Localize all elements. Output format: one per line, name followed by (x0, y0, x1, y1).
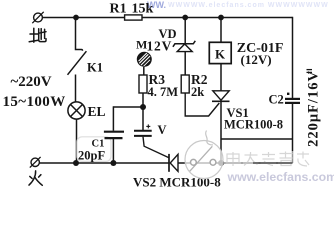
touch plate M (137, 52, 151, 75)
node junction R3/C1/V (140, 104, 146, 110)
wire link y107 (113, 106, 143, 108)
quote marks above vertical label (307, 70, 313, 73)
wire R3 bottom (142, 93, 144, 107)
wire top right (142, 17, 293, 19)
wire EL to bottom (76, 119, 78, 163)
watermark rounded box near C1 (77, 137, 111, 162)
zener diode VD (173, 18, 195, 76)
svg-text:www.elecfans.com: www.elecfans.com (227, 170, 334, 184)
svg-text:20pF: 20pF (78, 148, 105, 162)
node junction K branch (218, 15, 224, 21)
polarity mark capacitor V (146, 124, 150, 128)
label 火 (live) (29, 171, 42, 185)
svg-text:R1: R1 (110, 2, 127, 17)
wire bottom left (39, 162, 169, 164)
svg-text:V: V (158, 123, 167, 137)
wire bottom right (178, 162, 293, 164)
resistor R2 (181, 75, 189, 93)
svg-text:MCR100-8: MCR100-8 (224, 117, 283, 131)
wire R2 to gate VS1 (185, 93, 219, 116)
svg-text:220μF/16V: 220μF/16V (305, 70, 321, 147)
resistor R3 (139, 75, 147, 93)
svg-text:15k: 15k (132, 2, 154, 17)
wire link y139 (221, 138, 293, 140)
svg-text:EL: EL (88, 104, 106, 119)
relay K coil (209, 18, 231, 64)
watermark logo circle (185, 131, 223, 179)
wire right side upper (292, 17, 294, 98)
switch K1 (68, 18, 87, 103)
terminal live (huo) (30, 157, 41, 168)
wire bottom visible through watermark (222, 162, 253, 164)
resistor R1 (125, 15, 142, 20)
watermark text 电子发烧友 (226, 151, 312, 167)
svg-text:(12V): (12V) (241, 52, 272, 67)
svg-text:K: K (215, 47, 226, 62)
watermark top blue text (147, 0, 329, 10)
svg-text:15~100W: 15~100W (3, 94, 66, 110)
svg-text:C2: C2 (269, 93, 284, 107)
lamp EL (68, 102, 85, 119)
svg-text:~220V: ~220V (11, 74, 52, 90)
thyristor VS1 (212, 64, 230, 163)
node junction VD branch (182, 15, 188, 21)
wire top left (42, 17, 124, 19)
node junction EL bottom (73, 160, 79, 166)
svg-text:4. 7M: 4. 7M (148, 85, 179, 99)
thyristor VS2 (169, 154, 178, 172)
svg-text:2k: 2k (191, 85, 204, 99)
terminal earth (di) (32, 12, 43, 23)
svg-text:12V: 12V (147, 38, 173, 53)
svg-text:WWWWW.elecfans.com WWWWWWWW: WWWWW.elecfans.com WWWWWWWW (168, 2, 329, 9)
polarity mark capacitor C2 (287, 93, 289, 95)
node junction C1 bottom (110, 160, 116, 166)
wire gate VS2 (143, 137, 169, 158)
svg-text:K1: K1 (87, 61, 103, 75)
label 地 (earth) (29, 28, 46, 42)
node junction VS1 bottom (218, 160, 224, 166)
capacitor C1 (104, 106, 124, 163)
capacitor V (134, 107, 152, 136)
node junction top-left (73, 15, 79, 21)
capacitor C2 (285, 99, 300, 163)
